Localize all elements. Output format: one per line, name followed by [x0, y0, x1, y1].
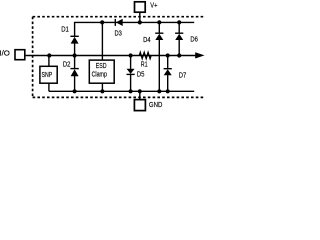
- wire ESD bottom stub: [101, 83, 103, 91]
- svg-text:D4: D4: [143, 35, 151, 44]
- junction D4 tap on GND rail: [157, 89, 161, 93]
- svg-text:SNP: SNP: [42, 70, 53, 79]
- diode D2: [70, 56, 78, 92]
- wire V+ stub: [139, 12, 141, 22]
- junction V+ tap on top rail: [138, 20, 142, 24]
- wire main I/O horizontal: [26, 55, 196, 57]
- diode D5: [127, 56, 135, 92]
- diode D4: [155, 22, 163, 91]
- svg-text:D6: D6: [190, 35, 198, 44]
- junction D4 tap on top rail: [157, 20, 161, 24]
- junction ESD clamp tap on top rail: [100, 20, 104, 24]
- V+ pad: [135, 2, 146, 12]
- junction GND pad tap on GND rail: [138, 89, 142, 93]
- junction SNP tap on I/O wire: [47, 53, 51, 57]
- svg-text:GND: GND: [149, 100, 163, 109]
- junction D6 tap on top rail: [177, 20, 181, 24]
- svg-text:R1: R1: [141, 59, 148, 68]
- box ESD clamp: [89, 60, 114, 83]
- junction D2 tap on GND rail: [73, 89, 77, 93]
- box SNP: [40, 66, 57, 83]
- output arrow: [195, 52, 204, 58]
- junction ESD clamp tap on GND rail: [100, 89, 104, 93]
- junction D7 tap on I/O wire: [166, 53, 170, 57]
- svg-text:D1: D1: [61, 24, 69, 33]
- svg-text:D7: D7: [179, 71, 187, 80]
- svg-text:Clamp: Clamp: [92, 70, 107, 79]
- junction D5 tap on GND rail: [129, 89, 133, 93]
- junction D5/R1 tap on I/O wire: [129, 53, 133, 57]
- junction D7 tap on GND rail: [166, 89, 170, 93]
- diode D1: [70, 36, 78, 55]
- resistor R1: [139, 52, 151, 58]
- diode D7: [164, 56, 172, 92]
- wire GND pad stub: [139, 91, 141, 99]
- wire ESD clamp vertical: [101, 22, 103, 60]
- wire GND rail: [49, 90, 194, 92]
- diode D6: [175, 22, 183, 55]
- wire SNP top stub: [48, 56, 50, 67]
- svg-text:D5: D5: [137, 70, 145, 79]
- junction D6 tap on I/O wire: [177, 53, 181, 57]
- wire SNP bottom to GND rail: [48, 83, 50, 91]
- GND pad: [134, 100, 145, 111]
- I/O pad: [15, 50, 25, 60]
- dashed boundary box: [33, 17, 204, 98]
- svg-text:D3: D3: [115, 29, 122, 38]
- svg-text:V+: V+: [150, 0, 157, 9]
- wire top rail: [75, 22, 195, 36]
- junction D1/D2 tap on I/O wire: [73, 53, 77, 57]
- svg-text:D2: D2: [63, 60, 71, 69]
- diode D3: [115, 19, 122, 26]
- svg-text:I/O: I/O: [0, 48, 10, 57]
